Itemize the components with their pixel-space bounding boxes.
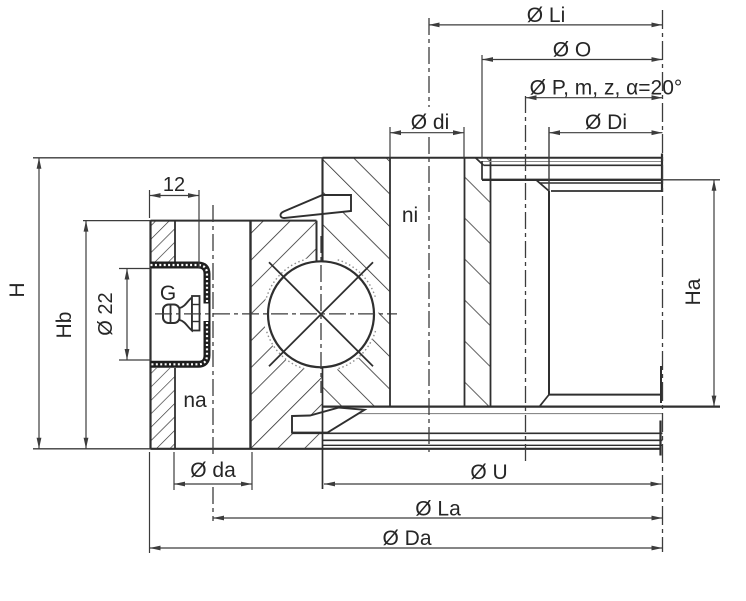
svg-text:Hb: Hb — [53, 312, 76, 339]
hatch left ring wall — [151, 221, 176, 262]
svg-text:ni: ni — [402, 204, 418, 227]
raceway dotted arcs — [338, 331, 376, 369]
joint below ball / diameter U extension — [322, 367, 324, 489]
outer housing ring — [540, 182, 663, 184]
grease pocket cap — [151, 265, 208, 364]
dimension H — [38, 158, 40, 449]
dimension Ha — [713, 180, 715, 407]
ball vertical centerline — [320, 236, 322, 393]
dimension diameter O — [481, 55, 483, 158]
gear rim band — [482, 161, 663, 163]
ball cross lines — [269, 262, 373, 366]
bottom flange bands — [323, 413, 663, 415]
dimension diameter U — [324, 483, 662, 485]
svg-text:Ø O: Ø O — [553, 39, 592, 62]
dimension diameter da — [173, 452, 175, 490]
hatch outer strip of inner race ring — [465, 158, 491, 407]
svg-text:Ha: Ha — [682, 278, 705, 305]
lower seal — [292, 408, 365, 433]
svg-text:H: H — [6, 282, 29, 297]
svg-text:Ø da: Ø da — [190, 459, 236, 482]
dimension diameter 22 — [119, 268, 151, 270]
hatch seal carrier ring — [251, 221, 317, 449]
ball — [264, 257, 379, 372]
bolt circle centerline left ring — [212, 205, 214, 458]
dimension diameter di — [389, 127, 391, 158]
svg-text:Ø P, m, z, α=20°: Ø P, m, z, α=20° — [530, 77, 683, 100]
dimension diameter P gear data — [526, 97, 663, 99]
inner race ring outline — [33, 157, 323, 159]
dimension diameter La — [213, 517, 663, 519]
seal carrier ring edges — [316, 221, 318, 261]
svg-text:Ø 22: Ø 22 — [95, 292, 117, 335]
inner race ring left edge — [321, 158, 323, 262]
dimension Hb — [85, 221, 87, 449]
svg-text:Ø U: Ø U — [470, 461, 507, 484]
dimension diameter Da — [149, 452, 151, 553]
dimension diameter Di — [548, 127, 550, 191]
axis reference centerline — [662, 10, 664, 552]
dimension diameter Li — [429, 24, 663, 26]
left mounting ring outline — [149, 221, 151, 449]
gear pitch centerline — [525, 96, 527, 461]
dimension 12 — [149, 190, 151, 218]
hatch inner race ring — [323, 158, 391, 407]
grease nipple G — [163, 305, 180, 324]
svg-text:Ø Da: Ø Da — [382, 527, 431, 550]
svg-text:Ø di: Ø di — [411, 111, 450, 134]
grease / ball horizontal centerline — [155, 313, 397, 315]
svg-text:Ø Li: Ø Li — [527, 4, 566, 27]
svg-text:Ø La: Ø La — [415, 498, 461, 521]
svg-text:Ø Di: Ø Di — [585, 111, 627, 134]
svg-text:na: na — [183, 389, 207, 412]
upper seal — [280, 195, 351, 218]
svg-text:12: 12 — [163, 174, 185, 196]
svg-text:G: G — [160, 282, 176, 305]
bolt circle centerline inner ring — [428, 18, 430, 107]
grease nipple window in cap wall — [199, 304, 209, 322]
